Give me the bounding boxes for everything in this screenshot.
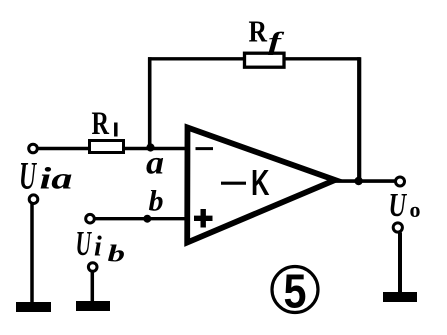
terminal circle Uib ground bbox=[88, 263, 97, 272]
wire feedback top right segment bbox=[283, 57, 361, 60]
label Uo bbox=[389, 187, 421, 224]
label Rf bbox=[249, 13, 286, 55]
wire Uia to ground bbox=[30, 204, 34, 303]
wire feedback left vertical bbox=[148, 57, 152, 148]
ground output bbox=[383, 292, 417, 302]
junction node a bbox=[146, 143, 154, 151]
terminal circle Uia input bbox=[29, 144, 38, 153]
svg-text:o: o bbox=[410, 197, 421, 222]
wire feedback right vertical bbox=[357, 57, 361, 181]
svg-text:U: U bbox=[389, 187, 408, 224]
svg-text:b: b bbox=[149, 185, 164, 218]
svg-text:R: R bbox=[249, 13, 268, 48]
svg-text:U: U bbox=[76, 224, 93, 263]
svg-text:ia: ia bbox=[40, 161, 73, 196]
terminal circle Uia ground bbox=[29, 195, 38, 204]
resistor Rf bbox=[245, 53, 285, 67]
ground Uib bbox=[76, 301, 110, 311]
wire b input bbox=[95, 217, 188, 220]
svg-text:U: U bbox=[19, 155, 37, 198]
svg-text:a: a bbox=[146, 146, 164, 182]
op-amp noninverting input plus sign bbox=[194, 209, 213, 228]
label R1 bbox=[92, 106, 116, 142]
wire Uo to ground bbox=[398, 233, 402, 293]
wire output bbox=[334, 179, 395, 183]
op-amp U1 triangle bbox=[187, 128, 335, 243]
svg-text:5: 5 bbox=[284, 266, 307, 319]
op-amp gain label -K bbox=[221, 162, 270, 203]
junction node b bbox=[143, 215, 151, 223]
svg-text:K: K bbox=[251, 162, 270, 203]
svg-text:f: f bbox=[268, 29, 285, 56]
junction output node bbox=[354, 177, 362, 185]
resistor R1 bbox=[90, 141, 124, 153]
figure number 5 bbox=[272, 266, 318, 319]
svg-text:i: i bbox=[94, 232, 102, 263]
terminal circle Uo ground bbox=[393, 223, 402, 232]
wire input to R1 bbox=[38, 147, 91, 151]
terminal circle Uib wire bbox=[86, 214, 95, 223]
label Uib bbox=[76, 224, 126, 268]
wire Uib to ground bbox=[91, 271, 95, 301]
svg-text:R: R bbox=[92, 106, 110, 142]
svg-text:b: b bbox=[108, 242, 126, 268]
wire R1 to op-amp bbox=[124, 147, 188, 151]
wire feedback top left segment bbox=[148, 57, 245, 60]
label Uia bbox=[19, 155, 73, 198]
terminal circle output bbox=[396, 177, 405, 186]
ground Uia bbox=[16, 302, 51, 312]
op-amp inverting input minus sign bbox=[196, 147, 214, 150]
